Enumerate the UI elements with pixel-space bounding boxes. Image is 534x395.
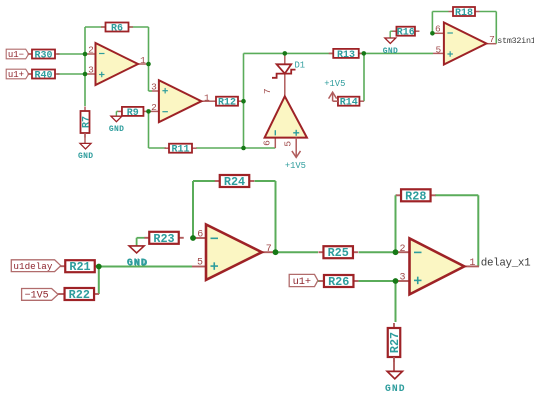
svg-text:R23: R23: [153, 232, 174, 246]
svg-text:R14: R14: [340, 98, 358, 109]
svg-text:7: 7: [266, 244, 272, 255]
svg-text:5: 5: [436, 44, 442, 55]
svg-text:R26: R26: [328, 275, 349, 289]
svg-text:R18: R18: [455, 8, 473, 19]
svg-text:u1+: u1+: [293, 276, 312, 288]
svg-text:7: 7: [489, 34, 495, 45]
svg-text:2: 2: [88, 45, 94, 56]
svg-text:3: 3: [151, 82, 157, 93]
svg-text:−1V5: −1V5: [25, 291, 49, 302]
svg-text:GND: GND: [109, 125, 124, 134]
svg-text:R28: R28: [405, 189, 426, 203]
svg-text:stm32in1: stm32in1: [497, 36, 534, 46]
svg-text:R12: R12: [218, 98, 236, 109]
svg-text:6: 6: [197, 229, 203, 240]
svg-text:R6: R6: [111, 23, 123, 34]
svg-text:5: 5: [283, 141, 294, 147]
svg-text:R40: R40: [34, 70, 52, 81]
svg-text:3: 3: [88, 65, 94, 76]
svg-text:u1+: u1+: [8, 70, 24, 80]
svg-text:2: 2: [399, 244, 405, 255]
svg-text:R16: R16: [397, 28, 415, 39]
svg-text:u1−: u1−: [8, 50, 24, 60]
svg-text:R30: R30: [34, 50, 52, 61]
svg-text:1: 1: [204, 92, 210, 103]
svg-text:6: 6: [261, 140, 272, 146]
svg-text:1: 1: [469, 258, 475, 269]
svg-text:delay_x1: delay_x1: [481, 257, 531, 269]
svg-text:R7: R7: [81, 116, 92, 128]
svg-text:7: 7: [262, 88, 273, 94]
svg-text:GND: GND: [78, 152, 93, 161]
svg-text:R24: R24: [224, 175, 245, 189]
svg-text:R25: R25: [328, 246, 349, 260]
svg-text:u1delay: u1delay: [13, 261, 52, 272]
svg-text:6: 6: [435, 24, 441, 35]
svg-text:GND: GND: [127, 259, 148, 270]
svg-text:2: 2: [151, 102, 157, 113]
svg-text:R27: R27: [388, 332, 402, 353]
svg-text:GND: GND: [383, 47, 398, 56]
svg-text:R13: R13: [337, 50, 355, 61]
svg-text:+1V5: +1V5: [324, 79, 345, 89]
svg-text:R11: R11: [171, 145, 189, 156]
svg-text:+1V5: +1V5: [285, 161, 306, 171]
svg-text:3: 3: [399, 272, 405, 283]
svg-text:R21: R21: [69, 260, 90, 274]
svg-text:GND: GND: [385, 383, 406, 394]
svg-text:1: 1: [140, 55, 146, 66]
svg-text:D1: D1: [295, 61, 306, 71]
svg-text:R9: R9: [127, 108, 139, 119]
svg-text:5: 5: [197, 257, 203, 268]
svg-text:R22: R22: [69, 288, 90, 302]
